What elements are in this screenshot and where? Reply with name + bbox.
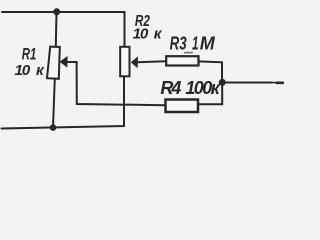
svg-text:R1: R1 [22, 45, 37, 63]
svg-text:R4: R4 [160, 78, 181, 98]
svg-text:10: 10 [15, 62, 31, 79]
svg-text:R3: R3 [170, 33, 187, 53]
svg-text:М: М [200, 33, 216, 53]
svg-text:1: 1 [192, 33, 199, 53]
svg-text:10: 10 [133, 26, 149, 43]
svg-text:100к: 100к [185, 78, 220, 98]
svg-text:к: к [36, 62, 45, 79]
svg-text:к: к [154, 26, 163, 43]
